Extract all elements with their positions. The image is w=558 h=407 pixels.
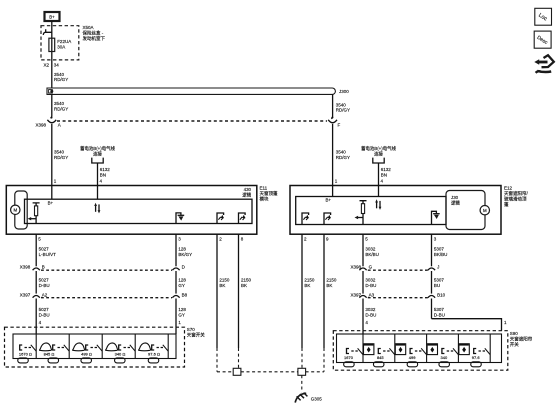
svg-text:6132: 6132 <box>381 167 392 172</box>
S90 switch contact 2 <box>377 334 395 363</box>
svg-text:3540: 3540 <box>54 72 65 77</box>
svg-text:A: A <box>58 123 61 128</box>
svg-text:1670: 1670 <box>344 355 354 360</box>
wire pin1 into right logic <box>332 186 334 197</box>
wire pin4 into logic <box>97 186 99 200</box>
svg-text:逻辑: 逻辑 <box>451 199 460 206</box>
motor M left <box>11 205 20 214</box>
wire 2150 BK module pin9 (right) <box>323 234 325 348</box>
wire 128 GY X398-D to X397-B8 <box>178 278 186 288</box>
legend icon LOC <box>535 8 552 25</box>
S90 switch contact 1 <box>344 334 363 363</box>
battery feed B+ <box>45 12 60 21</box>
legend jump arrow icon <box>534 55 554 73</box>
svg-text:X50A: X50A <box>83 25 94 30</box>
S70 resistor 5 <box>148 358 159 363</box>
note battery positive circuit (left) <box>80 145 115 163</box>
svg-text:E12: E12 <box>504 186 513 191</box>
wire 128 GY X397-B8 to switch pin1 <box>178 307 186 317</box>
svg-text:BK: BK <box>219 283 225 288</box>
svg-text:2150: 2150 <box>326 278 337 283</box>
S70 detent hump 1 <box>40 343 52 351</box>
wire pin1 into logic <box>51 186 53 200</box>
svg-text:D-BU: D-BU <box>365 312 376 317</box>
svg-text:3032: 3032 <box>365 307 376 312</box>
svg-text:1: 1 <box>504 320 507 325</box>
wire pin4 into S90 bus <box>362 331 364 334</box>
svg-text:4: 4 <box>100 179 103 184</box>
motor M right <box>480 206 489 215</box>
svg-text:97.6: 97.6 <box>472 355 481 360</box>
svg-text:X398: X398 <box>20 265 31 270</box>
motor housing (rounded) right <box>446 191 485 230</box>
svg-text:J: J <box>437 265 439 270</box>
wire 128 module pin3 to X398-D <box>175 234 177 266</box>
svg-text:BK/BU: BK/BU <box>365 252 379 257</box>
svg-text:30A: 30A <box>57 45 65 50</box>
wire label 3540 RD/GY above bus <box>54 72 68 82</box>
inline connector X398 J <box>428 265 439 294</box>
svg-text:5307: 5307 <box>434 307 445 312</box>
switch output symbol right pin9 <box>324 213 331 225</box>
S90 direction box 4 <box>459 344 469 355</box>
S90 direction box 3 <box>427 344 437 355</box>
svg-text:模块: 模块 <box>260 196 269 203</box>
svg-text:BK: BK <box>326 283 332 288</box>
pin number labels bottom right module <box>304 237 437 242</box>
switch S90 label <box>510 331 533 348</box>
svg-text:34: 34 <box>54 63 60 68</box>
svg-text:2: 2 <box>219 237 222 242</box>
motor housing (rounded) left <box>15 191 27 229</box>
svg-text:845 Ω: 845 Ω <box>44 351 55 356</box>
svg-text:M: M <box>483 208 487 213</box>
svg-text:BN: BN <box>100 173 106 178</box>
svg-text:BK: BK <box>241 283 247 288</box>
svg-text:1670 Ω: 1670 Ω <box>19 351 32 356</box>
svg-text:4: 4 <box>39 320 42 325</box>
position sensor (resistor with wiper) right <box>355 201 367 225</box>
svg-text:B: B <box>42 265 45 270</box>
legend icon DESC <box>534 31 551 48</box>
svg-text:3540: 3540 <box>336 102 347 107</box>
wire label 3540 RD/GY below bus left <box>54 101 68 111</box>
internal ground symbol left (pin 3) <box>176 213 184 224</box>
S70 resistor 1 <box>18 358 29 363</box>
inline connector X397 A2 <box>20 292 48 327</box>
sunroof switch S70 dashed box <box>5 327 185 367</box>
S70 resistor 2 <box>48 358 59 363</box>
dashed wire splice to ground <box>301 375 303 392</box>
svg-text:3540: 3540 <box>54 101 65 106</box>
svg-text:BU: BU <box>434 283 440 288</box>
svg-text:RD/GY: RD/GY <box>54 77 68 82</box>
splice pack bus J300 <box>47 88 349 94</box>
dashed ground wire from right pin9 <box>323 348 325 372</box>
svg-text:F: F <box>338 123 341 128</box>
svg-text:X397: X397 <box>350 292 361 297</box>
drive up/down arrows right <box>375 199 381 210</box>
svg-text:340 Ω: 340 Ω <box>115 351 126 356</box>
S90 resistor 2 <box>373 362 384 367</box>
svg-text:1: 1 <box>54 179 57 184</box>
svg-text:Desc: Desc <box>536 35 549 47</box>
svg-text:Loc: Loc <box>537 12 548 22</box>
splice junction box 1 <box>233 368 241 375</box>
svg-text:430: 430 <box>244 187 252 192</box>
S70 detent hump 3 <box>106 343 118 351</box>
logic block label left <box>242 187 251 199</box>
svg-text:天窗开关: 天窗开关 <box>187 332 205 339</box>
ground G305 <box>295 393 322 403</box>
svg-text:连接: 连接 <box>374 150 383 157</box>
wire pin4 into right logic <box>378 186 380 197</box>
svg-text:3: 3 <box>434 237 437 242</box>
svg-text:340: 340 <box>441 355 448 360</box>
svg-text:128: 128 <box>178 278 186 283</box>
dashed connector line X398 B-D <box>41 269 172 271</box>
wire 5307 module pin3 to X398-J <box>431 234 433 266</box>
svg-text:BK/BU: BK/BU <box>434 252 448 257</box>
S90 resistor 5 <box>471 362 482 367</box>
S70 switch contact 1 <box>19 334 36 359</box>
inline connector X398 D <box>172 265 185 294</box>
switch output symbol left pin2 <box>217 213 224 224</box>
switch S70 body frame <box>13 334 176 359</box>
dashed connector line X398 G-J <box>368 269 428 271</box>
wire note to module pin4 6132 BN <box>97 163 99 186</box>
svg-text:B10: B10 <box>437 292 446 297</box>
S70 switch contact 3 <box>81 334 102 359</box>
logic block box left <box>25 199 253 223</box>
connector label X2 pin 34 <box>44 63 60 68</box>
dashed connector line X398 A-F <box>57 120 327 122</box>
switch output symbol left pin8 <box>239 213 246 224</box>
svg-text:499 Ω: 499 Ω <box>81 351 92 356</box>
inline connector X398 B <box>20 265 45 294</box>
wire 3032 D-BU X397-A3 to switch pin4 <box>365 307 376 317</box>
svg-text:97.6 Ω: 97.6 Ω <box>148 351 160 356</box>
svg-text:1: 1 <box>178 320 181 325</box>
dashed ground bus <box>217 371 324 373</box>
svg-text:2: 2 <box>304 237 307 242</box>
svg-text:逻辑: 逻辑 <box>242 192 251 199</box>
dashed ground wire from left pin2 <box>216 348 218 372</box>
inline connector X397 A3 <box>350 292 374 330</box>
svg-text:5027: 5027 <box>39 278 50 283</box>
pin number labels bottom left module <box>38 237 243 242</box>
sunshade switch S90 dashed box <box>333 331 508 371</box>
wire 5027 D-BU X397-A2 to switch pin4 <box>39 307 50 317</box>
wire 3032 D-BU X398-G to X397-A3 <box>365 278 376 288</box>
connector X398 pin A <box>36 94 61 127</box>
svg-text:M: M <box>13 208 17 213</box>
switch output symbol right pin2 <box>302 213 309 225</box>
svg-text:8: 8 <box>241 237 244 242</box>
inline connector X397 B8 <box>172 292 187 327</box>
wire note to right module pin4 6132 BN <box>378 163 380 186</box>
svg-text:845: 845 <box>377 355 384 360</box>
svg-text:2150: 2150 <box>241 278 252 283</box>
svg-text:6132: 6132 <box>100 167 111 172</box>
S70 switch contact 2 <box>44 334 70 359</box>
wire 5027 D-BU X398-B to X397-A2 <box>39 278 50 288</box>
svg-text:B+: B+ <box>48 201 54 206</box>
S70 switch contact 5 <box>148 334 168 359</box>
S90 resistor 3 <box>407 362 418 367</box>
svg-text:5: 5 <box>365 237 368 242</box>
dashed ground wire from left pin8 <box>238 348 240 368</box>
connector X398 pin F <box>328 117 340 128</box>
svg-text:F22UA: F22UA <box>57 39 71 44</box>
wire pin4 into S70 bus <box>35 327 37 334</box>
position sensor (resistor with wiper) left <box>28 203 40 224</box>
svg-text:B+: B+ <box>326 198 332 203</box>
wire X398-A to module pin1 3540 RD/GY <box>51 124 53 186</box>
S90 switch contact 4 <box>441 334 459 363</box>
S70 detent hump 4 <box>139 343 151 351</box>
S90 resistor 4 <box>439 362 450 367</box>
internal ground symbol right (pin 3) <box>432 211 440 224</box>
svg-text:128: 128 <box>178 307 186 312</box>
svg-text:3032: 3032 <box>365 278 376 283</box>
svg-text:X398: X398 <box>36 123 47 128</box>
svg-text:RD/GY: RD/GY <box>54 155 68 160</box>
svg-text:J300: J300 <box>339 89 349 94</box>
wire 5307 D-BU X397-B10 jog to switch pin1 <box>432 319 502 331</box>
S70 resistor 4 <box>115 358 126 363</box>
svg-text:开关: 开关 <box>510 341 519 348</box>
wire 2150 BK module pin2 (left) <box>216 234 218 348</box>
svg-text:RD/GY: RD/GY <box>336 155 350 160</box>
svg-text:D-BU: D-BU <box>434 312 445 317</box>
S70 resistor 3 <box>81 358 92 363</box>
note battery positive circuit (right) <box>361 145 396 163</box>
logic block label right <box>451 195 460 207</box>
svg-text:D: D <box>182 265 186 270</box>
svg-text:RD/GY: RD/GY <box>54 106 68 111</box>
svg-text:4: 4 <box>365 320 368 325</box>
svg-text:D-BU: D-BU <box>365 283 376 288</box>
drive up/down arrows left <box>94 203 100 214</box>
svg-text:4: 4 <box>381 179 384 184</box>
svg-text:B+: B+ <box>49 14 55 19</box>
svg-text:1: 1 <box>335 179 338 184</box>
wire bus to X398-F 3540 RD/GY <box>332 94 334 117</box>
wire battery to bus 3540 <box>51 21 53 88</box>
svg-text:GY: GY <box>178 283 185 288</box>
svg-text:2150: 2150 <box>219 278 230 283</box>
S90 switch contact 3 <box>409 334 427 363</box>
svg-text:3540: 3540 <box>54 150 65 155</box>
svg-text:9: 9 <box>326 237 329 242</box>
svg-text:BK/GY: BK/GY <box>178 252 192 257</box>
wire 2150 BK module pin8 (left) <box>238 234 240 348</box>
S90 direction box 1 <box>364 344 374 355</box>
svg-text:S70: S70 <box>187 327 196 332</box>
svg-text:X397: X397 <box>20 292 31 297</box>
svg-text:5307: 5307 <box>434 278 445 283</box>
svg-text:G305: G305 <box>311 396 323 401</box>
module E11 label <box>260 186 278 203</box>
inline connector X397 B10 <box>428 292 446 318</box>
svg-text:5027: 5027 <box>39 307 50 312</box>
svg-text:5: 5 <box>38 237 41 242</box>
wire pin1 into S70 bus <box>175 327 177 334</box>
S70 detent hump 2 <box>73 343 85 351</box>
svg-text:D-BU: D-BU <box>39 283 50 288</box>
bus tap symbol inside fuse box <box>43 29 52 35</box>
wire 3032 module pin5 to X398-G <box>362 234 364 266</box>
svg-text:3: 3 <box>178 237 181 242</box>
svg-text:2150: 2150 <box>304 278 315 283</box>
logic block box right <box>296 197 446 225</box>
svg-text:BN: BN <box>381 173 387 178</box>
wire 2150 BK module pin2 (right) <box>301 234 303 348</box>
switch S70 label <box>187 327 205 339</box>
svg-text:J30: J30 <box>451 195 459 200</box>
dashed ground wire from right pin2 <box>301 348 303 368</box>
svg-text:5307: 5307 <box>434 247 445 252</box>
svg-text:蓬: 蓬 <box>504 201 509 208</box>
fuse F22UA 30A <box>49 38 55 51</box>
fuse box label X50A <box>83 25 106 42</box>
module E12 label <box>504 186 528 209</box>
svg-text:L-BU/VT: L-BU/VT <box>39 252 57 257</box>
svg-text:X398: X398 <box>350 265 361 270</box>
svg-text:G: G <box>369 265 373 270</box>
wire label 3540 RD/GY below X398-F <box>336 150 350 160</box>
svg-text:连接: 连接 <box>93 150 102 157</box>
dashed connector line X397 A2-B8 <box>41 297 172 299</box>
svg-text:A3: A3 <box>369 292 375 297</box>
svg-text:发动机室下: 发动机室下 <box>83 35 106 42</box>
svg-text:E11: E11 <box>260 186 268 191</box>
svg-text:3032: 3032 <box>365 247 376 252</box>
wire 5027 module pin5 to X398-B <box>35 234 37 266</box>
switch S90 body frame <box>337 334 502 363</box>
svg-text:A2: A2 <box>42 292 48 297</box>
S90 direction box 2 <box>395 344 405 355</box>
svg-text:S90: S90 <box>510 331 519 336</box>
S90 resistor 1 <box>344 362 355 367</box>
svg-text:BK: BK <box>304 283 310 288</box>
sunshade motor module E12 outer box <box>290 186 501 235</box>
wire X398-F to right module pin1 <box>332 124 334 186</box>
svg-text:499: 499 <box>409 355 416 360</box>
svg-text:D-BU: D-BU <box>39 312 50 317</box>
wire 5307 BU X398-J to X397-B10 <box>434 278 445 288</box>
svg-text:128: 128 <box>178 247 186 252</box>
sunroof motor module E11 outer box <box>6 186 256 235</box>
dashed connector line X397 A3-B10 <box>368 297 428 299</box>
splice junction box 2 <box>298 368 306 375</box>
svg-text:3540: 3540 <box>336 150 347 155</box>
fuse block X50A dashed box <box>41 26 79 60</box>
svg-text:X2: X2 <box>44 63 50 68</box>
svg-text:RD/GY: RD/GY <box>336 108 350 113</box>
S70 switch contact 4 <box>115 334 136 359</box>
svg-text:B8: B8 <box>182 292 188 297</box>
S90 switch contact 5 <box>472 334 490 363</box>
svg-text:5027: 5027 <box>39 247 50 252</box>
inline connector X398 G <box>350 265 372 294</box>
svg-text:GY: GY <box>178 312 185 317</box>
